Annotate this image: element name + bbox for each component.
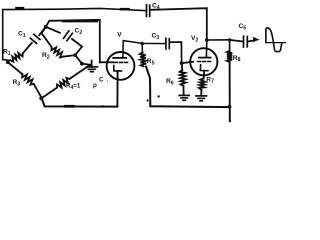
svg-text:V: V — [117, 32, 122, 39]
svg-text:C: C — [99, 76, 104, 83]
svg-text:.: . — [107, 76, 109, 83]
svg-text:ρ: ρ — [93, 82, 97, 89]
